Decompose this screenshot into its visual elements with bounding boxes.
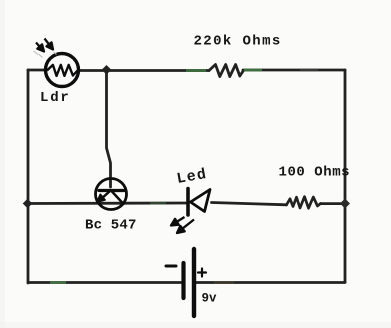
svg-text:100 Ohms: 100 Ohms	[279, 165, 351, 181]
svg-text:9v: 9v	[202, 292, 218, 306]
svg-text:Bc 547: Bc 547	[85, 218, 137, 234]
svg-text:220k Ohms: 220k Ohms	[194, 34, 282, 50]
svg-text:Ldr: Ldr	[40, 90, 71, 106]
